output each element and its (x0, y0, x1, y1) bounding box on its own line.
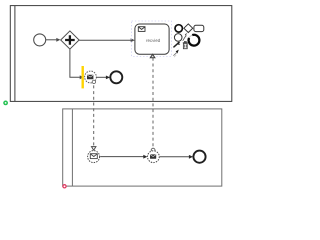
context pad icon: connect zigzag (183, 34, 187, 41)
context pad icon: lightning arrow (173, 53, 176, 56)
end event EE2 (bottom pool) (193, 151, 205, 163)
yellow marker bar (82, 66, 84, 88)
green handle dot (3, 101, 8, 106)
task T1 selection outline (132, 21, 172, 56)
wire sequence flow G1->throw event E1 (70, 49, 80, 77)
start event S1 (34, 34, 46, 46)
message throw event E3 (bottom pool) (148, 151, 160, 163)
message flow MF2 source marker (151, 148, 155, 152)
wire message flow MF2 (dashed, from E3 up to T1) (152, 58, 154, 148)
task T1 label "recvied" (146, 39, 160, 42)
pool P1 (top participant) (10, 6, 232, 102)
context pad icon: append gateway (184, 24, 193, 33)
wire sequence flow E2->E3 (100, 156, 144, 158)
context pad icon: append task (194, 25, 204, 31)
parallel gateway G1 (61, 31, 79, 49)
context pad icon: big circular arrow (189, 35, 200, 46)
pool P2 label band divider (71, 109, 73, 186)
wire sequence flow S1->G1 (46, 39, 57, 41)
context pad icon: trash (183, 42, 188, 44)
task T1 envelope icon (138, 27, 145, 32)
end event EE1 (top pool) (110, 71, 122, 83)
message flow MF1 source marker (92, 80, 95, 83)
context pad icon: append end event (175, 25, 182, 32)
context pad icon: append intermediate event (174, 34, 182, 42)
pool P1 label band divider (14, 6, 16, 102)
message flow MF2 arrowhead at task bottom (150, 54, 155, 58)
message catch event E2 (bottom pool) (88, 151, 100, 163)
message flow MF1 arrowhead (92, 147, 96, 151)
context pad icon: wrench (174, 44, 178, 47)
wire sequence flow E1->end event (97, 76, 107, 78)
wire message flow MF1 (dashed down) (93, 85, 95, 146)
message throw event E1 (top pool) (85, 71, 97, 83)
wire sequence flow G1->task T1 (79, 39, 131, 41)
red handle dot (63, 185, 66, 188)
wire sequence flow E3->EE2 (160, 156, 190, 158)
pool P2 (bottom participant) (63, 109, 222, 186)
task T1 (selected, "recvied") (135, 24, 169, 54)
